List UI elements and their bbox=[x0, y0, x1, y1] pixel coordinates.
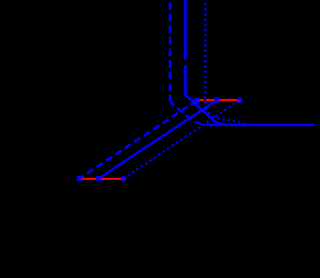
wire: solid vertical worldline bbox=[184, 0, 187, 60]
wire: horizontal solid line (asymptote) bbox=[207, 124, 315, 127]
wire: dashed elbow curve bending right into horizontal asymptote bbox=[170, 101, 208, 125]
wire: dashed vertical worldline bbox=[169, 0, 172, 101]
node: top marker B (blue square) bbox=[214, 98, 219, 103]
node: dotted line dot overlapping top red segment bbox=[204, 101, 206, 103]
node: top marker C (blue square) bbox=[237, 98, 242, 103]
wire: dotted vertical worldline bbox=[204, 0, 206, 108]
node: bottom marker B (blue square) bbox=[96, 176, 101, 181]
wire: long solid diagonal from top marker B to bottom marker B bbox=[99, 100, 217, 178]
node: bottom marker C (blue square) bbox=[121, 176, 126, 181]
wire: long dotted diagonal from top marker C to bottom marker C bbox=[124, 100, 240, 178]
wire: dotted elbow curve bending right toward horizontal asymptote bbox=[205, 108, 244, 123]
bottom red ruler segment bbox=[79, 178, 123, 180]
wire: solid elbow curve through top marker bending into horizontal line bbox=[185, 96, 314, 125]
top red ruler segment bbox=[197, 99, 240, 101]
wire: long dashed diagonal from top marker A to bottom marker A bbox=[79, 101, 197, 179]
gap in top red segment where dotted line crosses bbox=[204, 99, 206, 102]
node: top marker A (blue square) bbox=[194, 98, 199, 103]
node: bottom marker A (blue square) bbox=[77, 176, 82, 181]
